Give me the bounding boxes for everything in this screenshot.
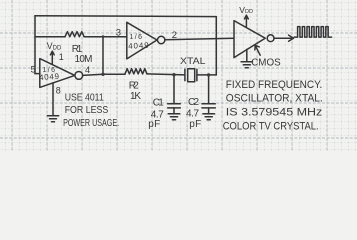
junction node dot pin4/R2 [101, 73, 104, 76]
crystal XTAL body [188, 69, 195, 82]
svg-text:OSCILLATOR, XTAL.: OSCILLATOR, XTAL. [226, 93, 323, 105]
svg-text:FOR LESS: FOR LESS [65, 105, 109, 116]
buffer U3 output bubble [267, 35, 274, 42]
wire crystal right plate to right rail [197, 74, 216, 76]
buffer U3 CMOS triangle [234, 21, 265, 58]
wire buffer output with arrowhead [274, 35, 294, 41]
svg-text:C2: C2 [188, 97, 199, 108]
pin 1 VDD arrow into gate 1 [50, 51, 54, 64]
wire vertical link pin4 node to pin3 node [102, 37, 104, 74]
svg-text:USE 4011: USE 4011 [65, 92, 104, 103]
inverter U2 gate 2 triangle [127, 22, 157, 59]
svg-text:4049: 4049 [128, 41, 149, 51]
svg-text:CMOS: CMOS [251, 58, 281, 69]
square wave output symbol [294, 27, 331, 37]
svg-text:FIXED FREQUENCY.: FIXED FREQUENCY. [226, 79, 322, 91]
wire right rail down to crystal [215, 17, 217, 75]
svg-text:4: 4 [85, 65, 90, 75]
svg-text:POWER USAGE.: POWER USAGE. [63, 118, 119, 129]
svg-text:pF: pF [189, 119, 201, 130]
svg-text:COLOR TV CRYSTAL.: COLOR TV CRYSTAL. [223, 120, 319, 132]
wire top feedback (gate1 input node to crystal right) [35, 15, 216, 18]
resistor R2 [125, 69, 147, 74]
capacitor C2 stub [208, 75, 210, 104]
wire R2 to crystal left plate [147, 74, 185, 75]
wire pin 5 stub into gate 1 [35, 73, 40, 75]
capacitor C2 plates [202, 104, 215, 108]
capacitor C1 plates [168, 104, 181, 108]
wire junction to R2 [103, 73, 125, 75]
svg-text:8: 8 [56, 85, 61, 95]
inverter U1 gate 1 triangle [40, 59, 75, 88]
svg-text:5: 5 [31, 65, 36, 76]
capacitor C1 lower stub [173, 108, 175, 113]
inverter U2 output bubble [158, 36, 165, 43]
junction node dot pin3/R1 [102, 35, 105, 38]
inverter U1 output bubble [75, 72, 83, 80]
wire gate 1 output to junction [83, 74, 103, 75]
svg-text:3: 3 [116, 27, 121, 38]
capacitor C1 stub [173, 75, 175, 104]
wire left rail (top wire down to pin 5) [34, 16, 36, 74]
junction node dot C2 tap [207, 73, 210, 76]
wire R1 right to gate 2 input pin 3 [84, 36, 126, 38]
svg-text:4049: 4049 [39, 72, 60, 82]
ground below C1 [168, 114, 180, 120]
svg-text:1K: 1K [130, 91, 141, 102]
crystal XTAL left plate [184, 69, 186, 80]
svg-text:C1: C1 [153, 98, 164, 109]
wire R1 left segment [35, 36, 65, 38]
svg-text:pF: pF [148, 119, 160, 130]
svg-text:10M: 10M [75, 54, 93, 65]
svg-text:4.7: 4.7 [186, 109, 199, 120]
crystal XTAL right plate [196, 69, 198, 80]
svg-text:1: 1 [59, 52, 64, 62]
svg-text:2: 2 [172, 30, 177, 41]
ground below C2 [203, 114, 215, 120]
pin 8 wire gate 1 to ground [52, 83, 54, 116]
svg-text:XTAL: XTAL [180, 56, 206, 67]
wire gate 2 output to buffer input [165, 38, 234, 39]
wire buffer ground pin [246, 49, 248, 61]
ground below buffer [241, 62, 252, 68]
junction node dot C1 tap [172, 73, 175, 76]
resistor R1 [65, 32, 84, 37]
VDD arrow above buffer [245, 15, 249, 26]
svg-text:IS 3.579545 MHz: IS 3.579545 MHz [226, 107, 322, 119]
ground below gate 1 [47, 116, 58, 122]
svg-text:1/6: 1/6 [130, 34, 143, 41]
arrow from CMOS label to buffer [255, 45, 260, 55]
capacitor C2 lower stub [208, 108, 210, 113]
grid major lines [0, 0, 357, 151]
